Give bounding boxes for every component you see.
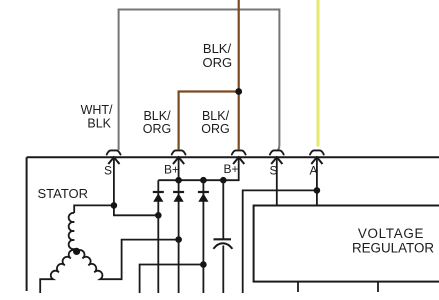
diode D3 line [202, 180, 204, 293]
capacitor C1 top lead [222, 180, 224, 239]
voltage regulator box U1 [254, 206, 439, 282]
label WHT/BLK [81, 103, 113, 131]
svg-text:BLK/: BLK/ [203, 41, 232, 56]
junction dot phase lead on diode 3 line [200, 261, 207, 268]
label pin S (right) [269, 164, 277, 178]
junction dot on A wire [314, 187, 321, 194]
wire from pin S (left) down with jog to diode 1 anode [114, 158, 158, 216]
svg-text:STATOR: STATOR [38, 186, 89, 201]
stator coil 1 (vertical) [69, 213, 77, 251]
wire YEL into pin A [317, 0, 320, 147]
wire W1 WHT/BLK loop from pin S (left) over top to pin S (right) [119, 10, 280, 151]
svg-text:WHT/: WHT/ [81, 103, 113, 117]
label VOLTAGE REGULATOR [352, 226, 434, 256]
svg-text:ORG: ORG [143, 122, 171, 136]
diode D1 [153, 192, 164, 202]
wire pin B+ (left) down to bus [178, 158, 180, 180]
label BLK/ORG (top) [202, 41, 232, 70]
pin arrow B+ (left) [173, 157, 184, 164]
pin arrow S (right) [271, 157, 282, 164]
alternator case left edge [26, 157, 28, 291]
diode D2 line [178, 180, 180, 293]
svg-text:REGULATOR: REGULATOR [352, 241, 434, 256]
junction dot bus at capacitor [220, 177, 227, 184]
svg-text:VOLTAGE: VOLTAGE [358, 226, 424, 241]
label BLK/ORG (right branch) [201, 109, 229, 136]
wire stator phase 1 branch to coil [74, 205, 114, 213]
pin arrow S (left) [108, 157, 119, 164]
label STATOR [38, 186, 89, 201]
label pin B+ (right) [223, 162, 238, 176]
svg-text:B+: B+ [164, 163, 179, 177]
label BLK/ORG (left branch) [143, 109, 171, 136]
stator coil 2 (lower left) [40, 250, 76, 293]
capacitor C1 bottom lead [222, 246, 224, 294]
wire pin A into voltage regulator [316, 158, 318, 206]
voltage regulator lead 1 [297, 282, 299, 292]
wire BLK/ORG branch to pin B+ (left) [179, 92, 239, 150]
connector socket arc pin S (left) [107, 150, 121, 154]
junction dot stator wye centre [73, 248, 80, 255]
wire BLK/ORG main vertical into pin B+ (right) [238, 0, 240, 149]
label pin B+ (left) [164, 163, 179, 177]
svg-text:BLK/: BLK/ [143, 109, 171, 123]
connector socket arc pin B+ (left) [172, 150, 186, 154]
alternator case top edge [27, 156, 439, 158]
wire phase lead from bottom to diode 3 line [140, 265, 204, 294]
junction dot coil 3 on diode 2 line [175, 236, 182, 243]
junction dot S wire at stator branch [111, 202, 118, 209]
pin arrow A [311, 157, 322, 164]
label pin S (left) [104, 164, 112, 178]
wire A branch down left side of regulator [243, 190, 317, 293]
diode D2 [173, 192, 184, 202]
wire pin S (right) into voltage regulator [276, 158, 278, 206]
svg-text:S: S [104, 164, 112, 178]
junction dot S jog on diode 1 line [155, 212, 162, 219]
diode D3 [198, 192, 209, 202]
stator coil 3 (lower right) [77, 240, 179, 280]
svg-text:B+: B+ [223, 162, 238, 176]
connector socket arc pin B+ (right) [232, 150, 246, 154]
svg-text:BLK/: BLK/ [202, 109, 230, 123]
capacitor C1 [213, 239, 232, 249]
junction dot bus at diode 3 [200, 177, 207, 184]
connector socket arc pin S (right) [270, 150, 284, 154]
voltage regulator lead 2 [377, 282, 379, 292]
junction dot bus at diode 2 [175, 177, 182, 184]
svg-text:BLK: BLK [87, 117, 111, 131]
wire pin B+ (right) down and left: B+ bus [158, 158, 238, 180]
junction dot on BLK/ORG wire [235, 88, 242, 95]
diode D1 line [157, 180, 159, 293]
label pin A [309, 164, 317, 178]
svg-text:ORG: ORG [201, 122, 229, 136]
pin arrow B+ (right) [233, 157, 244, 164]
svg-text:ORG: ORG [202, 55, 232, 70]
connector socket arc pin A [310, 150, 324, 154]
